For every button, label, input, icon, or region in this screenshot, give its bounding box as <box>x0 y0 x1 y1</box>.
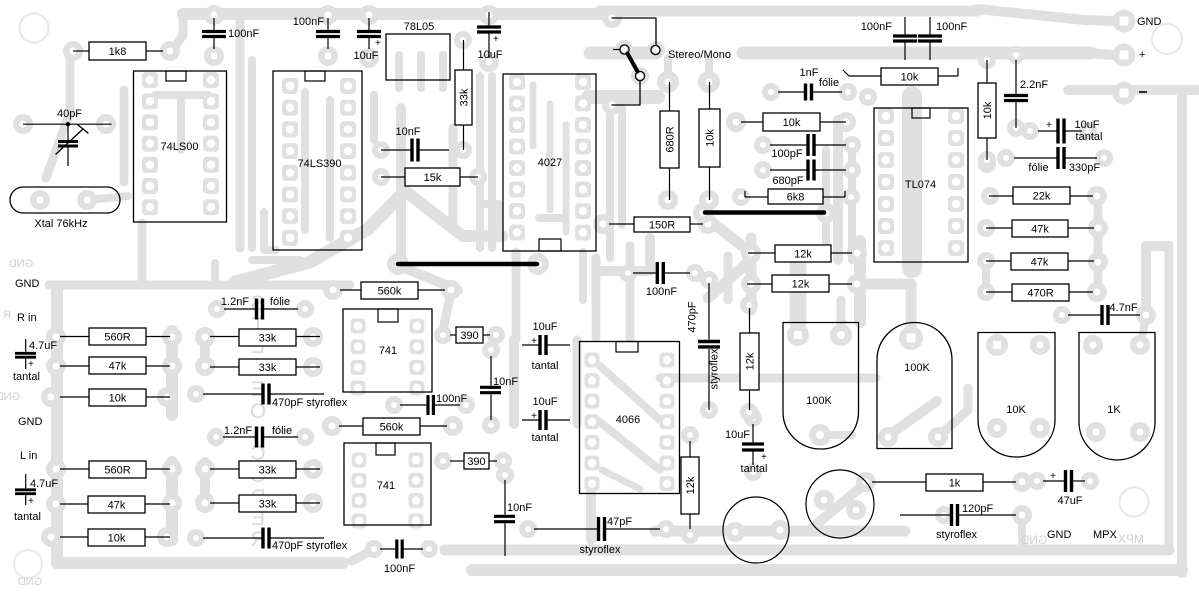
svg-text:4066: 4066 <box>616 414 640 426</box>
svg-text:470pF styroflex: 470pF styroflex <box>272 540 348 552</box>
copper: mid rails between resistor rows L channel <box>166 462 178 540</box>
svg-text:+: + <box>531 411 537 422</box>
svg-text:47k: 47k <box>1031 224 1049 236</box>
resistor 22k <box>989 195 1013 197</box>
capacitor 100nF tr1 <box>904 17 906 35</box>
copper: rail right of 12k <box>854 241 866 322</box>
capacitor 120pF styroflex <box>900 514 950 516</box>
resistor 10k vertical right <box>986 60 988 83</box>
svg-text:R: R <box>3 309 11 321</box>
potentiometer 100K A <box>783 323 859 450</box>
resistor 560R R-channel <box>60 336 89 338</box>
svg-text:1k: 1k <box>949 478 961 490</box>
svg-text:10k: 10k <box>108 533 126 545</box>
resistor 560k R <box>340 289 361 291</box>
svg-text:MPX: MPX <box>1118 532 1144 546</box>
svg-text:74LS390: 74LS390 <box>297 158 341 170</box>
copper: feed to pot B wiper <box>860 284 911 330</box>
copper: nested bends below 74LS390 <box>264 212 276 250</box>
svg-text:10nF: 10nF <box>395 126 420 138</box>
copper: IC pads 4066 <box>585 353 600 368</box>
copper: rails near 10uF tantal pair <box>509 340 519 424</box>
copper: rail right resistor bank <box>1094 196 1103 292</box>
svg-text:100nF: 100nF <box>936 21 967 33</box>
svg-text:1nF: 1nF <box>800 67 819 79</box>
svg-text:10uF: 10uF <box>532 396 557 408</box>
copper: diagonal inside transistor Q2 <box>812 483 866 528</box>
svg-text:fólie: fólie <box>272 425 292 437</box>
svg-text:12k: 12k <box>685 476 697 494</box>
svg-text:10K: 10K <box>1006 404 1026 416</box>
svg-text:100nF: 100nF <box>861 21 892 33</box>
svg-text:470R: 470R <box>1027 288 1053 300</box>
copper: bottom-left ground bus <box>57 557 343 569</box>
svg-text:10k: 10k <box>109 393 127 405</box>
svg-text:47k: 47k <box>1031 257 1049 269</box>
svg-text:+: + <box>28 359 34 370</box>
copper: top supply bus <box>183 8 600 20</box>
svg-text:+: + <box>531 336 537 347</box>
capacitor 10uF tantal mid-upper <box>522 344 539 346</box>
svg-text:47uF: 47uF <box>1057 495 1082 507</box>
svg-text:100nF: 100nF <box>436 393 467 405</box>
copper: pads <box>63 41 83 61</box>
copper: vertical right of 74LS390 <box>370 95 378 140</box>
capacitor 1.2nF folie L <box>223 436 255 438</box>
copper: IC pads TL074 <box>878 108 894 124</box>
copper: trace 1k8 to top bus <box>172 16 183 51</box>
op-amp 741 A <box>343 309 432 392</box>
copper: outer border right <box>1177 90 1187 573</box>
svg-text:40pF: 40pF <box>57 108 82 120</box>
resistor 10k vertical left <box>709 82 711 109</box>
capacitor 10uF tantal TL074 <box>1038 130 1057 132</box>
capacitor 100nF top2 <box>327 18 329 30</box>
resistor 390 L <box>450 460 464 462</box>
svg-text:GND: GND <box>0 391 20 403</box>
svg-text:GND: GND <box>9 258 34 270</box>
svg-text:+: + <box>1139 49 1145 61</box>
transistor Q1 <box>723 497 789 563</box>
svg-text:+: + <box>1050 471 1056 482</box>
resistor 10k top <box>849 75 881 77</box>
svg-text:4027: 4027 <box>538 157 562 169</box>
svg-text:15k: 15k <box>424 172 442 184</box>
svg-text:GND: GND <box>15 278 40 290</box>
svg-text:12k: 12k <box>745 352 757 370</box>
copper: outer border bottom <box>472 564 1182 576</box>
svg-text:12k: 12k <box>794 249 812 261</box>
potentiometer 1K <box>1079 333 1155 461</box>
svg-text:33k: 33k <box>259 499 277 511</box>
svg-text:100K: 100K <box>904 362 930 374</box>
svg-text:78L05: 78L05 <box>404 21 435 33</box>
svg-text:560k: 560k <box>380 422 404 434</box>
svg-text:100nF: 100nF <box>228 28 259 40</box>
svg-text:47pF: 47pF <box>607 516 632 528</box>
svg-text:GND: GND <box>18 416 43 428</box>
svg-text:33k: 33k <box>259 465 277 477</box>
svg-text:tantal: tantal <box>741 463 768 475</box>
svg-text:680pF: 680pF <box>772 175 803 187</box>
copper: stub 120pF to border <box>1018 515 1026 546</box>
svg-text:tantal: tantal <box>532 432 559 444</box>
copper: mpx feed rail <box>1146 246 1167 315</box>
capacitor 10uF tantal 4066 <box>752 424 754 443</box>
capacitor 330pF folie <box>1014 157 1057 159</box>
trimmer capacitor 40pF <box>23 123 112 125</box>
resistor 560R L-channel <box>60 468 89 470</box>
resistor 15k <box>381 176 405 178</box>
copper: IC pads 4027 <box>509 74 525 90</box>
copper: stub 4027 to 150R <box>539 214 562 222</box>
IC 4027 <box>503 74 596 251</box>
svg-text:R in: R in <box>17 312 37 324</box>
svg-text:GND: GND <box>1047 529 1072 541</box>
copper: mounting hole top-left <box>20 14 49 43</box>
jumper wire 1 <box>398 262 537 267</box>
capacitor 100nF bottom <box>380 548 395 550</box>
resistor 47k right upper <box>986 227 1012 229</box>
crystal Xtal 76kHz <box>10 187 120 213</box>
capacitor 10uF tantal mid-lower <box>522 419 539 421</box>
svg-text:GND: GND <box>1137 16 1162 28</box>
copper: IC pads 741 B <box>352 453 367 468</box>
copper: vertical left of 74LS00 <box>120 90 129 182</box>
capacitor 470pF styroflex vertical <box>687 283 721 410</box>
copper: stub to 100nF mid <box>602 266 646 276</box>
capacitor 4.7nF <box>1068 314 1101 316</box>
svg-text:+: + <box>493 34 499 45</box>
svg-text:10k: 10k <box>783 117 801 129</box>
svg-text:+: + <box>761 452 767 463</box>
copper: stub pot D feed <box>1141 315 1146 344</box>
copper: diagonal from 74LS390 <box>235 191 405 282</box>
copper: +5V bus left part <box>590 47 656 60</box>
svg-text:390: 390 <box>460 330 478 342</box>
resistor 680R <box>669 82 671 111</box>
copper: left ground rail <box>51 287 63 563</box>
resistor 47k L-channel <box>60 503 88 505</box>
svg-text:tantal: tantal <box>1076 131 1103 143</box>
IC 74LS390 <box>273 71 362 250</box>
svg-text:33k: 33k <box>259 362 277 374</box>
svg-text:tantal: tantal <box>14 511 41 523</box>
copper: traces inside 74LS390 <box>301 92 309 230</box>
svg-text:1K: 1K <box>1107 404 1121 416</box>
copper: bottom band through transistors <box>655 526 905 537</box>
svg-text:10k: 10k <box>901 72 919 84</box>
svg-text:680R: 680R <box>665 126 677 152</box>
svg-text:100nF: 100nF <box>384 563 415 575</box>
copper: maze left of 4027 <box>396 108 406 268</box>
resistor 10k mid <box>741 121 763 123</box>
label minus <box>1139 91 1147 93</box>
copper: diagonal below jumper <box>400 266 458 290</box>
copper: stubs near 78L05 <box>395 55 403 88</box>
copper: mid rails between resistor rows R channel <box>166 331 178 415</box>
svg-text:10uF: 10uF <box>1074 119 1099 131</box>
resistor 33k R1 <box>210 336 239 338</box>
capacitor 4.7uF tantal L <box>14 474 58 523</box>
copper: square-hole pads (pot wipers, power) <box>1113 10 1136 33</box>
svg-text:10nF: 10nF <box>493 376 518 388</box>
copper: diagonal to 4027 <box>405 191 502 236</box>
svg-text:4.7nF: 4.7nF <box>1109 302 1137 314</box>
svg-text:22k: 22k <box>1033 191 1051 203</box>
resistor 33k L1 <box>210 468 239 470</box>
copper: IC pads 74LS390 <box>282 78 298 94</box>
svg-text:Stereo/Mono: Stereo/Mono <box>668 49 731 61</box>
resistor 33k R2 <box>210 366 239 368</box>
copper: wide band inside TL074 <box>902 96 922 268</box>
svg-text:10k: 10k <box>705 129 717 147</box>
svg-text:2.2nF: 2.2nF <box>1020 79 1048 91</box>
resistor 470R <box>986 291 1012 293</box>
capacitor 2.2nF <box>1015 60 1017 94</box>
copper: inner border bottom <box>445 545 1169 556</box>
copper: verticals between 74LS00 and 74LS390 <box>236 16 245 248</box>
capacitor 47pF styroflex <box>534 528 597 530</box>
capacitor 47uF <box>1043 480 1064 482</box>
svg-text:120pF: 120pF <box>962 503 993 515</box>
capacitor 100pF <box>770 144 807 146</box>
svg-text:560k: 560k <box>378 286 402 298</box>
svg-text:+: + <box>375 38 381 49</box>
svg-text:4.7uF: 4.7uF <box>29 340 57 352</box>
svg-text:100pF: 100pF <box>771 148 802 160</box>
resistor 12k upper <box>748 252 775 254</box>
IC 4066 <box>580 342 680 494</box>
svg-text:470pF styroflex: 470pF styroflex <box>272 397 348 409</box>
svg-text:1.2nF: 1.2nF <box>224 425 252 437</box>
resistor 150R <box>609 223 634 225</box>
IC TL074 <box>874 108 968 262</box>
svg-text:33k: 33k <box>259 333 277 345</box>
copper: +5V bus right part <box>743 47 1090 60</box>
voltage regulator 78L05 <box>386 34 450 80</box>
copper: stub 100nF bottom to ground bus <box>352 549 374 561</box>
svg-text:MPX: MPX <box>1093 529 1118 541</box>
svg-text:100nF: 100nF <box>646 286 677 298</box>
svg-text:tantal: tantal <box>13 371 40 383</box>
copper: trace inside 4066 <box>600 366 660 420</box>
svg-text:74LS00: 74LS00 <box>161 141 199 153</box>
resistor 560k L <box>339 425 363 427</box>
capacitor 10uF top2 <box>488 12 490 26</box>
copper: zigzag trace <box>704 216 755 298</box>
svg-text:GND: GND <box>1020 533 1047 547</box>
capacitor 470pF styroflex R <box>203 393 262 395</box>
capacitor 470pF styroflex L <box>203 537 262 539</box>
svg-text:560R: 560R <box>104 465 130 477</box>
resistor 33k vertical <box>463 40 465 70</box>
svg-text:fólie: fólie <box>1028 162 1048 174</box>
copper: trace from 1k8 pad to xtal <box>66 52 75 112</box>
copper: trace to GND pad <box>977 9 1112 21</box>
svg-text:+: + <box>1046 120 1052 131</box>
svg-text:390: 390 <box>467 456 485 468</box>
svg-text:tantal: tantal <box>532 360 559 372</box>
svg-text:100K: 100K <box>806 395 832 407</box>
capacitor 100nF tr2 <box>929 17 931 35</box>
resistor 33k L2 <box>210 502 239 504</box>
copper: rails left of TL074 <box>833 120 843 260</box>
svg-text:GND: GND <box>18 576 43 588</box>
capacitor 10uF top1 <box>368 18 370 30</box>
copper: wide rail above pot A <box>790 263 807 322</box>
svg-text:560R: 560R <box>104 332 130 344</box>
resistor 1k8 <box>73 50 89 52</box>
copper: verticals above 4066 <box>592 258 601 338</box>
copper: IC pads 74LS00 <box>142 72 158 88</box>
svg-text:1.2nF: 1.2nF <box>221 296 249 308</box>
IC 74LS00 <box>134 71 227 222</box>
svg-text:47k: 47k <box>108 500 126 512</box>
copper: switch bottom stub <box>588 90 658 104</box>
capacitor 100nF mid2 <box>633 272 656 274</box>
svg-text:1k8: 1k8 <box>109 46 127 58</box>
copper: gnd band mid-left <box>49 281 350 290</box>
svg-text:10uF: 10uF <box>725 429 750 441</box>
copper: stubs 680R/10k tops <box>664 58 672 82</box>
capacitor 10nF mid <box>480 356 518 420</box>
copper: verticals right of 4027 <box>606 95 614 258</box>
capacitor 100nF top1 <box>213 18 215 30</box>
potentiometer 100K B <box>877 323 952 449</box>
capacitor 1nF folie <box>778 91 804 93</box>
svg-text:470pF: 470pF <box>687 301 699 332</box>
potentiometer 10K <box>978 333 1055 458</box>
svg-text:styroflex: styroflex <box>936 529 977 541</box>
svg-text:12k: 12k <box>792 279 810 291</box>
resistor 6k8 <box>745 196 768 198</box>
svg-text:Xtal 76kHz: Xtal 76kHz <box>34 218 87 230</box>
copper: IC pads 741 A <box>351 319 366 334</box>
copper: trace right of xtal <box>87 196 128 200</box>
svg-text:fólie: fólie <box>270 296 290 308</box>
svg-text:741: 741 <box>379 345 397 357</box>
svg-text:10uF: 10uF <box>532 321 557 333</box>
svg-text:330pF: 330pF <box>1069 162 1100 174</box>
svg-text:100nF: 100nF <box>293 16 324 28</box>
copper: riser near xtal <box>138 223 147 284</box>
resistor 1k <box>872 481 926 483</box>
svg-text:4.7uF: 4.7uF <box>30 478 58 490</box>
svg-text:L in: L in <box>20 450 37 462</box>
copper: rail below 150R <box>746 238 757 310</box>
transistor Q2 <box>806 470 874 538</box>
copper: inner border right <box>1165 245 1174 550</box>
svg-text:10uF: 10uF <box>353 50 378 62</box>
copper: mounting hole bottom-left <box>14 550 42 578</box>
copper: minus rail to border <box>1068 85 1199 95</box>
svg-text:fólie: fólie <box>819 77 839 89</box>
capacitor 10nF L <box>494 480 532 556</box>
svg-text:10uF: 10uF <box>477 49 502 61</box>
jumper wire 2 <box>705 210 824 215</box>
op-amp 741 B <box>344 443 431 525</box>
capacitor 10nF top <box>381 149 411 151</box>
capacitor 1.2nF folie R <box>224 308 255 310</box>
resistor 390 R <box>450 334 456 336</box>
svg-text:TL074: TL074 <box>905 179 936 191</box>
copper: mounting hole bottom-right <box>1120 488 1149 517</box>
copper: trace inside 74LS00 <box>155 91 208 99</box>
svg-text:6k8: 6k8 <box>787 192 805 204</box>
capacitor 100nF mid1 <box>400 404 427 406</box>
svg-text:33k: 33k <box>459 88 471 106</box>
capacitor 680pF <box>770 169 807 171</box>
capacitor 4.7uF tantal R <box>13 339 57 383</box>
svg-text:741: 741 <box>377 480 395 492</box>
copper: stub pot A <box>837 300 846 334</box>
svg-text:styroflex: styroflex <box>580 544 621 556</box>
resistor 12k vertical lower <box>689 441 691 457</box>
copper: mounting hole top-right <box>1152 24 1182 54</box>
copper: band through pot area <box>660 374 876 383</box>
resistor 12k vertical upper <box>749 308 751 333</box>
resistor 10k R-channel <box>60 396 89 398</box>
svg-text:47k: 47k <box>109 361 127 373</box>
svg-text:10k: 10k <box>982 101 994 119</box>
svg-text:10nF: 10nF <box>507 502 532 514</box>
copper: traces inside 4027 <box>530 85 537 146</box>
resistor 47k R-channel <box>60 365 89 367</box>
resistor 12k lower <box>747 283 772 285</box>
copper: diagonal inside pot B <box>888 401 937 436</box>
copper: stub below 4066 <box>586 493 596 540</box>
switch Stereo/Mono <box>612 18 731 105</box>
svg-text:150R: 150R <box>649 220 675 232</box>
svg-text:+: + <box>28 496 34 507</box>
svg-text:styroflex: styroflex <box>709 348 721 389</box>
resistor 10k L-channel <box>60 536 88 538</box>
resistor 47k right lower <box>986 260 1011 262</box>
